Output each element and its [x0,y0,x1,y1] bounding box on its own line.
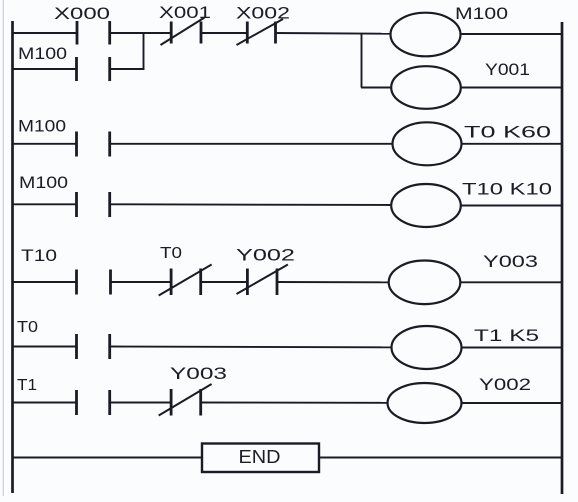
wire rung1 X001 to X002 [201,32,247,34]
svg-text:END: END [239,447,281,467]
wire rung2 left [12,143,77,145]
wire END rung left [12,457,202,459]
svg-text:X001: X001 [159,4,211,22]
wire coil Y001 to right rail [461,87,563,89]
contact M100 rung3 [19,174,110,217]
wire branch M100 right [110,68,145,70]
wire rung5 left [12,346,77,348]
coil M100 [391,5,509,56]
svg-text:M100: M100 [455,5,508,23]
coil T10 [391,181,552,228]
contact Y002 (NC) [236,247,295,296]
wire rung4 left [12,281,77,283]
contact T0 rung5 [17,319,110,359]
wire rung6 left [12,402,77,404]
wire rung5 to coil [110,346,392,349]
wire coil T0 to right rail [462,143,563,145]
contact M100 rung2 [18,118,110,157]
svg-text:T1 K5: T1 K5 [474,327,539,345]
wire coil Y003 to right rail [460,281,562,283]
wire rung4 to coil [277,281,389,283]
wire rung2 to coil [110,143,392,145]
svg-text:Y003: Y003 [483,253,538,271]
svg-text:T10: T10 [21,247,57,265]
svg-text:M100: M100 [18,118,66,136]
svg-text:M100: M100 [18,45,67,63]
contact Y003 (NC) [159,365,227,416]
svg-text:T0: T0 [17,319,38,336]
left power rail [11,21,14,493]
right power rail [561,22,564,494]
svg-text:Y001: Y001 [485,61,530,79]
wire rung1 to X001 [110,32,171,34]
wire rung1 X002 to coil [276,32,392,35]
svg-text:Y002: Y002 [236,247,295,265]
coil Y003 [389,253,538,304]
svg-text:Y003: Y003 [170,365,227,383]
svg-text:T1: T1 [17,377,37,394]
svg-text:M100: M100 [19,174,68,192]
wire rung3 left [12,203,77,205]
wire rung4 T0 to Y002 [201,281,247,283]
wire coil M100 to right rail [460,33,562,35]
coil T0 [393,122,552,165]
svg-text:Y002: Y002 [479,376,531,394]
wire branch M100 left [12,68,77,70]
wire rung3 to coil [110,203,392,206]
svg-text:T0: T0 [160,245,182,262]
wire vertical to Y001 coil [361,33,363,88]
coil Y001 [391,61,530,109]
wire branch vertical junction [143,33,145,69]
contact T1 [17,377,110,415]
svg-text:T0 K60: T0 K60 [464,124,551,142]
contact T10 [21,247,111,295]
left edge scan artifact [3,0,4,496]
wire rung6 to coil [201,402,387,404]
contact M100 branch [18,45,110,81]
svg-text:T10 K10: T10 K10 [462,181,552,199]
wire coil T10 to right rail [461,205,563,207]
coil Y002 [388,376,532,423]
wire coil Y002 to right rail [462,402,563,404]
svg-text:X002: X002 [236,5,290,23]
contact X002 (NC) [236,5,290,46]
wire rung6 to Y003 [110,402,171,404]
wire END rung right [319,457,562,459]
contact X001 (NC) [159,4,211,45]
END block [202,444,319,473]
wire rung1 left [12,32,77,34]
wire to Y001 coil [361,87,392,89]
contact X000 [54,5,110,45]
wire rung4 to T0 [111,281,172,283]
coil T1 [392,326,540,369]
contact T0 (NC) [159,245,212,296]
svg-text:X000: X000 [54,5,110,23]
wire coil T1 to right rail [461,347,562,349]
